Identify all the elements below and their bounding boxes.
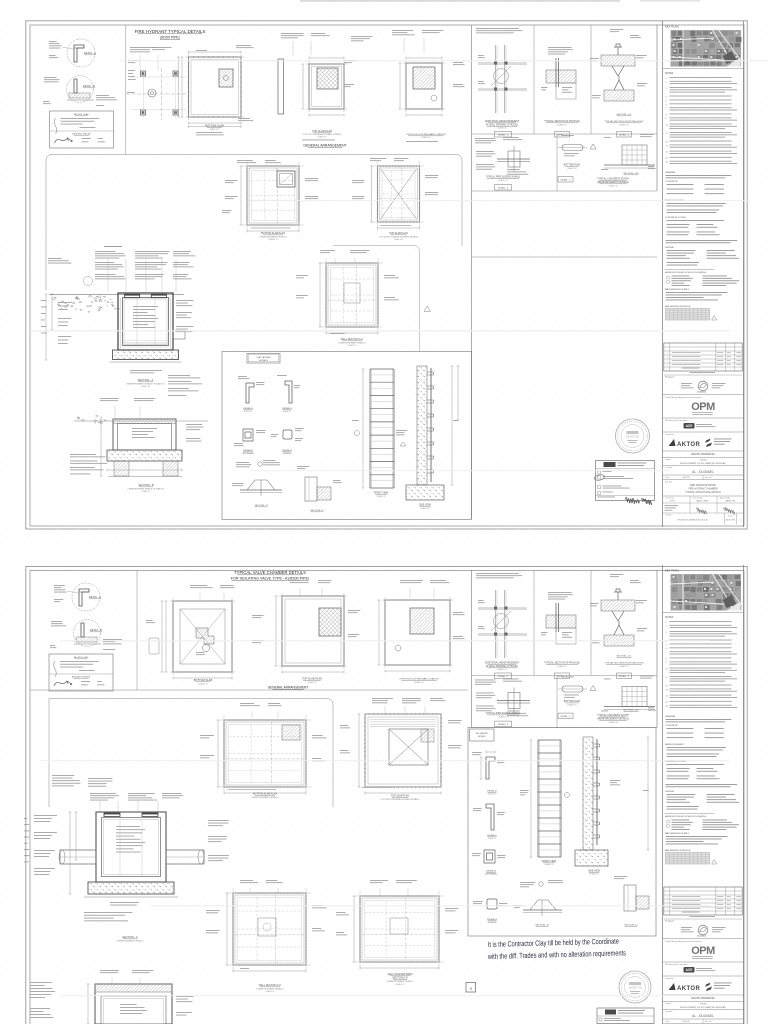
svg-text:Project :: Project : bbox=[665, 1002, 672, 1005]
ladder detail B rungs p2 bbox=[487, 899, 497, 909]
svg-text:BOTTOM PLAN: BOTTOM PLAN bbox=[564, 700, 581, 703]
svg-text:TYPICAL SECTION ON LIFTING HOO: TYPICAL SECTION ON LIFTING HOOK bbox=[604, 120, 644, 123]
svg-text:BARS BENDING DETAILS: BARS BENDING DETAILS bbox=[665, 288, 690, 291]
svg-text:Employer :: Employer : bbox=[665, 376, 676, 379]
svg-text:19 OCT 20: 19 OCT 20 bbox=[626, 435, 639, 439]
svg-text:SCALE 1:20: SCALE 1:20 bbox=[608, 185, 617, 188]
detail 2: typical section on lifting hook bbox=[610, 28, 623, 31]
svg-text:ACE: ACE bbox=[686, 424, 693, 428]
svg-text:( REINFORCEMENT DETAILS ): ( REINFORCEMENT DETAILS ) bbox=[251, 796, 278, 799]
svg-text:DETAIL-F: DETAIL-F bbox=[282, 407, 292, 410]
load data table bbox=[50, 111, 114, 148]
revision table bbox=[664, 887, 742, 915]
svg-text:ABBREVIATIONS AND SYMBOLS IN D: ABBREVIATIONS AND SYMBOLS IN DRAWING bbox=[665, 271, 707, 274]
ladder front view bbox=[369, 369, 371, 488]
svg-text:ABBREVIATIONS AND SYMBOLS IN D: ABBREVIATIONS AND SYMBOLS IN DRAWING bbox=[665, 815, 707, 818]
detail 4: typical section of pin hole bbox=[548, 46, 572, 49]
svg-text:SCALE 1:25: SCALE 1:25 bbox=[557, 124, 566, 127]
p2 PVH hole & lifting bar location bbox=[400, 579, 423, 582]
ladder details box page 1 bbox=[222, 352, 472, 520]
ladder detail E bbox=[246, 383, 254, 403]
svg-text:SHP LADDER: SHP LADDER bbox=[476, 732, 489, 735]
svg-text:WALL STARTER BARS: WALL STARTER BARS bbox=[387, 973, 413, 976]
section A chamber bbox=[118, 293, 173, 350]
detail B circle bbox=[74, 620, 101, 647]
svg-text:10.: 10. bbox=[666, 124, 669, 126]
section B left callouts bbox=[70, 453, 96, 456]
svg-text:10.: 10. bbox=[666, 668, 669, 670]
svg-text:SCALE 1:25: SCALE 1:25 bbox=[619, 665, 628, 668]
section S-S concrete plinth bbox=[604, 136, 611, 139]
svg-text:CONCRETE: CONCRETE bbox=[665, 725, 678, 727]
svg-text:SCALE 1:25: SCALE 1:25 bbox=[497, 668, 506, 671]
svg-text:DETAIL - A: DETAIL - A bbox=[89, 596, 101, 599]
svg-text:13.: 13. bbox=[666, 145, 669, 147]
svg-text:REINFORCEMENT: REINFORCEMENT bbox=[665, 744, 685, 746]
svg-text:DETAIL-B: DETAIL-B bbox=[282, 449, 292, 452]
section B chamber bbox=[74, 420, 208, 422]
p2 bottom slab plan bbox=[190, 584, 207, 587]
PVH hole & lifting bar location bbox=[392, 29, 413, 32]
svg-text:Date :: Date : bbox=[665, 1020, 671, 1023]
svg-text:DETAIL - 5: DETAIL - 5 bbox=[560, 715, 571, 718]
key plan map bbox=[671, 574, 742, 611]
svg-text:LEGEND: LEGEND bbox=[665, 247, 674, 249]
svg-text:SECTION - A: SECTION - A bbox=[138, 378, 154, 382]
svg-text:DETAIL - 2: DETAIL - 2 bbox=[619, 134, 630, 137]
svg-text:TYPICAL CONCRETE PLINTH: TYPICAL CONCRETE PLINTH bbox=[597, 178, 629, 181]
svg-text:SHOP DRAWING: SHOP DRAWING bbox=[691, 996, 715, 1000]
svg-text:TOP SLAB PLAN: TOP SLAB PLAN bbox=[389, 232, 408, 235]
svg-text:TYPICAL CONCRETE PLINTH: TYPICAL CONCRETE PLINTH bbox=[597, 714, 629, 717]
svg-text:(STRINGER): (STRINGER) bbox=[242, 453, 254, 455]
p2 side pipes bbox=[60, 850, 96, 864]
details grid frame page 1 bbox=[471, 25, 473, 519]
svg-text:CONCRETE: CONCRETE bbox=[665, 181, 678, 183]
section B dimension ticks bbox=[107, 469, 182, 471]
svg-text:( TOP & BOTTOM REINFORCEMENT D: ( TOP & BOTTOM REINFORCEMENT DETAILS ) bbox=[380, 798, 420, 801]
svg-text:TYPICAL VALVE CHAMBER DETAILS: TYPICAL VALVE CHAMBER DETAILS bbox=[234, 570, 306, 575]
svg-text:14.: 14. bbox=[666, 152, 669, 154]
svg-text:Location :: Location : bbox=[665, 1010, 674, 1013]
svg-text:( TOP & BOTTOM REINFORCEMENT D: ( TOP & BOTTOM REINFORCEMENT DETAILS ) bbox=[379, 235, 419, 238]
svg-text:Scale :: Scale : bbox=[728, 515, 734, 517]
wall section C-C bbox=[320, 249, 335, 252]
svg-text:15.: 15. bbox=[666, 158, 669, 160]
svg-text:TYPICAL PIPE SLEEVE IN WALL: TYPICAL PIPE SLEEVE IN WALL bbox=[486, 176, 521, 179]
svg-text:16.: 16. bbox=[666, 162, 669, 164]
p2 section A chamber bbox=[96, 812, 166, 882]
svg-text:BOTTOM SLAB: BOTTOM SLAB bbox=[194, 678, 213, 682]
detail 5: concrete plinth bottom plan bbox=[562, 134, 574, 137]
svg-text:GENERAL ARRANGEMENT: GENERAL ARRANGEMENT bbox=[303, 144, 346, 148]
svg-text:SCALE 1:25: SCALE 1:25 bbox=[557, 665, 566, 668]
section 1-1 detail p2 bbox=[624, 885, 636, 911]
svg-text:DETAIL - B: DETAIL - B bbox=[90, 629, 102, 632]
svg-text:OPM: OPM bbox=[691, 945, 715, 957]
svg-text:AS NOTED: AS NOTED bbox=[726, 519, 736, 522]
detail 4: typical section of pin hole bbox=[548, 591, 572, 594]
svg-text:( REINFORCEMENT DETAILS ): ( REINFORCEMENT DETAILS ) bbox=[116, 939, 143, 942]
section 1-1 detail bbox=[305, 477, 317, 501]
svg-text:(REINFORCEMENT DETAILS): (REINFORCEMENT DETAILS) bbox=[597, 718, 629, 721]
svg-text:SCALE 1:25: SCALE 1:25 bbox=[347, 344, 356, 347]
svg-text:Contractor :: Contractor : bbox=[665, 977, 675, 980]
svg-text:OPM: OPM bbox=[691, 401, 715, 413]
svg-text:AKTOR: AKTOR bbox=[677, 442, 700, 448]
svg-text:( REINFORCEMENT DETAILS OF SLA: ( REINFORCEMENT DETAILS OF SLAB "B" ) bbox=[126, 383, 165, 386]
svg-text:ADDITIONAL REINFORCEMENT: ADDITIONAL REINFORCEMENT bbox=[485, 120, 520, 123]
C-C partition rounded box bbox=[333, 246, 420, 352]
svg-text:CONCRETE COVER: CONCRETE COVER bbox=[665, 217, 686, 219]
svg-text:KEY PLAN: KEY PLAN bbox=[665, 569, 679, 573]
svg-text:FIRE WATER NETWORK: FIRE WATER NETWORK bbox=[690, 484, 717, 487]
svg-text:SCALE 1:25: SCALE 1:25 bbox=[394, 238, 403, 241]
svg-text:Project Manager/Engineer's Rep: Project Manager/Engineer's Representativ… bbox=[665, 940, 703, 943]
p2 lower wall section B-B (cut off) bbox=[30, 981, 52, 984]
svg-text:AN.XXX LOAD: AN.XXX LOAD bbox=[74, 113, 89, 116]
svg-text:(Ø150 PIPE): (Ø150 PIPE) bbox=[160, 36, 180, 40]
svg-text:DETAIL-F: DETAIL-F bbox=[487, 834, 497, 837]
svg-text:AT WALL OPENING (TYPICAL): AT WALL OPENING (TYPICAL) bbox=[486, 665, 519, 668]
details grid frame page 2 bbox=[471, 570, 473, 728]
svg-text:DEVELOPMENT OF IST CAMP (AT SR: DEVELOPMENT OF IST CAMP (AT SR RIYAL) bbox=[680, 1006, 726, 1009]
svg-text:AKTOR: AKTOR bbox=[677, 986, 700, 992]
svg-text:DETAIL - 5: DETAIL - 5 bbox=[560, 179, 571, 182]
svg-text:PVH HOLE & LIFTING BAR LOCATIO: PVH HOLE & LIFTING BAR LOCATION bbox=[400, 678, 439, 681]
key plan map bbox=[671, 30, 742, 67]
page 1 sheet frame bbox=[26, 21, 747, 529]
svg-text:SCALE 1:25: SCALE 1:25 bbox=[498, 716, 507, 719]
svg-text:12.: 12. bbox=[666, 141, 669, 143]
detail A circle bbox=[67, 39, 95, 67]
svg-text:NOTES: NOTES bbox=[665, 616, 674, 619]
page 2 sheet frame bbox=[26, 567, 747, 1024]
detail 1: additional reinforcement at wall opening bbox=[476, 27, 519, 30]
circular stamp bbox=[616, 419, 650, 453]
svg-text:DETAIL-B: DETAIL-B bbox=[487, 918, 497, 921]
svg-text:SCALE 1:25: SCALE 1:25 bbox=[421, 136, 430, 139]
svg-text:SCALE 1:20: SCALE 1:20 bbox=[608, 721, 617, 724]
ground line & vegetation bbox=[49, 294, 184, 296]
ladder detail B stringers p2 bbox=[484, 850, 495, 863]
detail 3: typical pipe sleeve in wall bbox=[475, 137, 495, 140]
svg-text:RE Supervision Consultant :: RE Supervision Consultant : bbox=[665, 963, 689, 966]
bottom slab anchor plan bbox=[130, 46, 156, 49]
ladder details box page 2 bbox=[468, 728, 656, 937]
svg-text:DETAIL - 1: DETAIL - 1 bbox=[498, 134, 509, 137]
svg-text:Key No. :: Key No. : bbox=[666, 514, 674, 516]
svg-text:SCALE 1:25: SCALE 1:25 bbox=[317, 136, 326, 139]
p2 GA bottom slab plan reinforcement bbox=[240, 702, 254, 705]
left dim column bbox=[45, 294, 47, 360]
svg-text:SECTION - B: SECTION - B bbox=[138, 484, 153, 487]
svg-text:BOTTOM SLAB: BOTTOM SLAB bbox=[205, 124, 224, 128]
svg-text:SCALE 1:25: SCALE 1:25 bbox=[619, 124, 628, 127]
detail 3: typical pipe sleeve in wall bbox=[475, 679, 495, 682]
svg-text:Project :: Project : bbox=[665, 458, 672, 461]
svg-text:TOP SLAB PLAN: TOP SLAB PLAN bbox=[302, 677, 322, 681]
ladder detail F p2 bbox=[486, 804, 494, 830]
svg-text:15.: 15. bbox=[666, 702, 669, 704]
svg-text:DETAIL-B: DETAIL-B bbox=[486, 870, 496, 873]
svg-text:13.: 13. bbox=[666, 689, 669, 691]
svg-text:DEVELOPMENT OF IST CAMP (AT SR: DEVELOPMENT OF IST CAMP (AT SR RIYAL) bbox=[680, 462, 726, 465]
svg-text:BAR BENDING SCHEDULE: BAR BENDING SCHEDULE bbox=[665, 305, 691, 308]
top slab plan bbox=[281, 32, 304, 35]
svg-text:AN AGING SPACES: AN AGING SPACES bbox=[72, 133, 91, 136]
svg-text:PVH HOLE & LIFTING BAR LOCATIO: PVH HOLE & LIFTING BAR LOCATION bbox=[407, 133, 446, 136]
section A right callouts bbox=[168, 374, 190, 377]
section S-S concrete plinth bbox=[604, 678, 611, 681]
svg-text:M.Y.F.: M.Y.F. bbox=[670, 501, 676, 503]
svg-text:( REINFORCEMENT DETAILS ): ( REINFORCEMENT DETAILS ) bbox=[259, 235, 286, 238]
svg-text:( REINFORCEMENT DETAILS ): ( REINFORCEMENT DETAILS ) bbox=[338, 341, 365, 344]
svg-text:DETAIL-E: DETAIL-E bbox=[487, 790, 497, 793]
section A leader annotations bbox=[95, 250, 116, 253]
detail 2: typical section on lifting hook bbox=[610, 573, 623, 576]
svg-text:SCALE 1:25: SCALE 1:25 bbox=[395, 983, 404, 986]
ladder front view p2 bbox=[537, 740, 539, 857]
svg-text:BOTTOM SLAB PLAN: BOTTOM SLAB PLAN bbox=[253, 793, 277, 796]
svg-text:LEGEND: LEGEND bbox=[665, 791, 674, 793]
p2 GA top slab plan reinforcement bbox=[372, 697, 393, 700]
svg-text:BOTTOM SLAB PLAN: BOTTOM SLAB PLAN bbox=[261, 232, 285, 235]
svg-text:AN AGING SPACES: AN AGING SPACES bbox=[72, 676, 91, 679]
svg-text:BOTTOM PLAN: BOTTOM PLAN bbox=[564, 164, 581, 167]
svg-text:WALL SECTION C-C: WALL SECTION C-C bbox=[341, 338, 364, 341]
svg-text:SCALE 1:20: SCALE 1:20 bbox=[567, 167, 576, 170]
right column frame page 2 bbox=[662, 565, 664, 1024]
svg-text:AL - DU30AEL: AL - DU30AEL bbox=[692, 470, 714, 474]
svg-text:BAR BENDING SCHEDULE: BAR BENDING SCHEDULE bbox=[665, 849, 691, 852]
svg-text:Date :: Date : bbox=[665, 476, 671, 479]
svg-text:(RUNGS): (RUNGS) bbox=[283, 453, 292, 455]
svg-text:WALL SECTION C-C: WALL SECTION C-C bbox=[259, 984, 282, 987]
svg-text:( REINFORCEMENT DETAILS OF SLA: ( REINFORCEMENT DETAILS OF SLAB "B" ) bbox=[128, 487, 165, 490]
detail 5: concrete plinth bottom plan bbox=[562, 676, 574, 679]
svg-text:TOP SLAB PLAN: TOP SLAB PLAN bbox=[391, 795, 410, 798]
divider top band / GA rounded box bbox=[46, 155, 462, 291]
svg-text:(STRINGER): (STRINGER) bbox=[485, 874, 497, 876]
svg-text:HANI.FYSL: HANI.FYSL bbox=[725, 500, 736, 503]
svg-text:3: 3 bbox=[667, 901, 668, 903]
svg-text:DETAIL - 3: DETAIL - 3 bbox=[498, 187, 509, 190]
svg-text:19 OCT 20: 19 OCT 20 bbox=[629, 986, 642, 990]
svg-text:TYPICAL PIPE SLEEVE IN WALL: TYPICAL PIPE SLEEVE IN WALL bbox=[486, 712, 521, 715]
scan artifacts bbox=[300, 0, 620, 2]
p2 section A leader annotations bbox=[90, 792, 116, 795]
detail 1: additional reinforcement at wall opening bbox=[476, 572, 519, 575]
svg-text:AT WALL OPENING (TYPICAL): AT WALL OPENING (TYPICAL) bbox=[486, 124, 519, 127]
ladder detail F bbox=[285, 381, 292, 403]
svg-text:AL - DU30AEL: AL - DU30AEL bbox=[692, 1014, 714, 1018]
svg-text:FIRE HYDRANT TYPICAL DETAILS: FIRE HYDRANT TYPICAL DETAILS bbox=[135, 29, 206, 34]
svg-text:SECTION - A: SECTION - A bbox=[122, 935, 138, 939]
svg-text:GENERAL: GENERAL bbox=[665, 715, 676, 718]
p2 wall section C-C bbox=[240, 879, 253, 882]
circular stamp bbox=[619, 971, 651, 1003]
svg-text:14.: 14. bbox=[666, 696, 669, 698]
svg-text:08-2013: 08-2013 bbox=[682, 477, 690, 479]
section B anchor detail p2 bbox=[520, 881, 536, 884]
svg-text:12.: 12. bbox=[666, 685, 669, 687]
ladder detail B rungs bbox=[283, 430, 292, 439]
svg-text:3: 3 bbox=[667, 357, 668, 359]
svg-text:1: 1 bbox=[667, 365, 668, 367]
svg-text:DETAILS: DETAILS bbox=[478, 735, 486, 738]
svg-text:ADDITIONAL REINFORCEMENT: ADDITIONAL REINFORCEMENT bbox=[485, 662, 520, 665]
svg-text:GENERAL: GENERAL bbox=[665, 171, 676, 174]
svg-text:SCALE 1:20: SCALE 1:20 bbox=[567, 703, 576, 706]
svg-text:TYPICAL SECTION OF PIN HOLE: TYPICAL SECTION OF PIN HOLE bbox=[544, 120, 580, 123]
svg-text:SCALE 1:25: SCALE 1:25 bbox=[414, 681, 423, 684]
svg-text:Location :: Location : bbox=[665, 466, 674, 469]
svg-text:SCALE 1:25: SCALE 1:25 bbox=[210, 128, 219, 131]
dim chains top band bbox=[189, 51, 242, 53]
load data table bbox=[49, 654, 113, 691]
svg-text:2: 2 bbox=[667, 361, 668, 363]
ladder side view bbox=[417, 366, 427, 485]
svg-text:ACE: ACE bbox=[686, 968, 693, 972]
svg-text:DETAIL-B: DETAIL-B bbox=[243, 449, 253, 452]
GA top slab plan reinforcement bbox=[370, 157, 386, 160]
p2 GA box top line bbox=[49, 699, 333, 808]
svg-text:TYPICAL SECTION ON LIFTING HOO: TYPICAL SECTION ON LIFTING HOOK bbox=[604, 662, 644, 665]
svg-text:Project Manager/Engineer's Rep: Project Manager/Engineer's Representativ… bbox=[665, 396, 703, 399]
svg-text:DETAILS: DETAILS bbox=[259, 359, 268, 362]
svg-text:SHOP DRAWING: SHOP DRAWING bbox=[691, 452, 715, 456]
svg-text:08-2013: 08-2013 bbox=[682, 1021, 690, 1023]
svg-text:( REINFORCEMENT DETAILS ): ( REINFORCEMENT DETAILS ) bbox=[386, 980, 413, 983]
svg-text:GENERAL ARRANGEMENT: GENERAL ARRANGEMENT bbox=[268, 686, 309, 690]
p2 top slab plan bbox=[290, 579, 302, 582]
svg-text:SCALE 1:25: SCALE 1:25 bbox=[497, 127, 506, 130]
svg-text:Contractor :: Contractor : bbox=[665, 433, 675, 436]
p2 top slab X opening bbox=[389, 729, 428, 765]
svg-text:TYPICAL STRUCTURAL DETAILS: TYPICAL STRUCTURAL DETAILS bbox=[685, 491, 721, 494]
svg-text:SECTION D-D: SECTION D-D bbox=[392, 977, 408, 980]
GA bottom slab plan reinforcement bbox=[237, 159, 253, 162]
svg-text:BARS BENDING DETAILS: BARS BENDING DETAILS bbox=[665, 832, 690, 835]
svg-text:SCALE 1:25: SCALE 1:25 bbox=[307, 681, 316, 684]
p2 approval box (partial) bbox=[597, 1008, 654, 1024]
svg-text:16.: 16. bbox=[666, 706, 669, 708]
svg-text:DETAIL - A: DETAIL - A bbox=[84, 52, 96, 55]
bottom slab plan square bbox=[189, 57, 242, 117]
svg-text:TYPICAL SECTION OF PIN HOLE: TYPICAL SECTION OF PIN HOLE bbox=[544, 662, 580, 665]
svg-text:4: 4 bbox=[667, 897, 668, 899]
right column frame page 1 bbox=[662, 21, 664, 527]
svg-text:ABDUL.HADI: ABDUL.HADI bbox=[696, 500, 708, 503]
svg-text:FIRE HYDRANT CHAMBER: FIRE HYDRANT CHAMBER bbox=[688, 488, 717, 491]
svg-text:Approved By :: Approved By : bbox=[720, 496, 732, 499]
svg-text:(REINFORCEMENT DETAILS): (REINFORCEMENT DETAILS) bbox=[597, 181, 629, 184]
svg-text:SCALE 1:25: SCALE 1:25 bbox=[268, 238, 277, 241]
svg-text:Drg Title :: Drg Title : bbox=[665, 481, 674, 484]
svg-text:DETAIL - B: DETAIL - B bbox=[83, 85, 95, 88]
svg-text:CP028-FLEX-WATER-STR-DV-0041: CP028-FLEX-WATER-STR-DV-0041 bbox=[677, 519, 708, 522]
ladder side view p2 bbox=[583, 737, 593, 850]
svg-text:AN.XXX LOAD: AN.XXX LOAD bbox=[74, 656, 89, 659]
detail A circle bbox=[72, 583, 100, 611]
svg-text:(RUNGS): (RUNGS) bbox=[488, 922, 497, 924]
svg-text:SCALE 1:25: SCALE 1:25 bbox=[498, 179, 507, 182]
svg-text:Drawn By :: Drawn By : bbox=[666, 497, 675, 499]
revision table bbox=[664, 343, 742, 371]
detail B circle bbox=[67, 76, 94, 103]
marker box 3 bbox=[466, 983, 476, 993]
svg-text:DETAIL-E: DETAIL-E bbox=[243, 407, 253, 410]
svg-text:Employer :: Employer : bbox=[665, 920, 676, 923]
svg-text:SHP LADDER: SHP LADDER bbox=[257, 356, 271, 359]
svg-text:NOTES: NOTES bbox=[665, 72, 674, 75]
left panel divider p2 bbox=[136, 570, 138, 690]
p2 base slab bbox=[88, 882, 174, 894]
ladder detail E p2 bbox=[486, 757, 495, 779]
svg-text:TOP SLAB PLAN: TOP SLAB PLAN bbox=[312, 129, 332, 133]
section H anchor detail bbox=[236, 461, 249, 464]
svg-text:4: 4 bbox=[667, 353, 668, 355]
svg-text:1: 1 bbox=[667, 909, 668, 911]
svg-text:Rev. No. :: Rev. No. : bbox=[705, 1021, 714, 1023]
svg-text:Rev. No. :: Rev. No. : bbox=[705, 477, 714, 479]
svg-text:CP028: CP028 bbox=[700, 1004, 707, 1006]
svg-text:CP028: CP028 bbox=[700, 460, 707, 462]
svg-text:Checked By :: Checked By : bbox=[693, 497, 704, 499]
svg-text:KEY PLAN: KEY PLAN bbox=[665, 25, 679, 29]
svg-text:FOR ISOLATING VALVE TYPE - A (: FOR ISOLATING VALVE TYPE - A (Ø300 PIPE) bbox=[231, 577, 309, 581]
approval stamp box bbox=[596, 461, 655, 501]
svg-text:( REINFORCEMENT DETAILS ): ( REINFORCEMENT DETAILS ) bbox=[256, 987, 283, 990]
p2 wall starter bars section D-D bbox=[370, 879, 388, 882]
svg-text:DETAIL - 1: DETAIL - 1 bbox=[498, 675, 509, 678]
svg-text:RE Supervision Consultant :: RE Supervision Consultant : bbox=[665, 419, 689, 422]
ladder detail B stringers bbox=[243, 429, 253, 441]
svg-text:SCALE 1:25: SCALE 1:25 bbox=[198, 682, 207, 685]
svg-text:DETAIL - 3: DETAIL - 3 bbox=[498, 723, 509, 726]
svg-text:DETAIL - 2: DETAIL - 2 bbox=[619, 675, 630, 678]
